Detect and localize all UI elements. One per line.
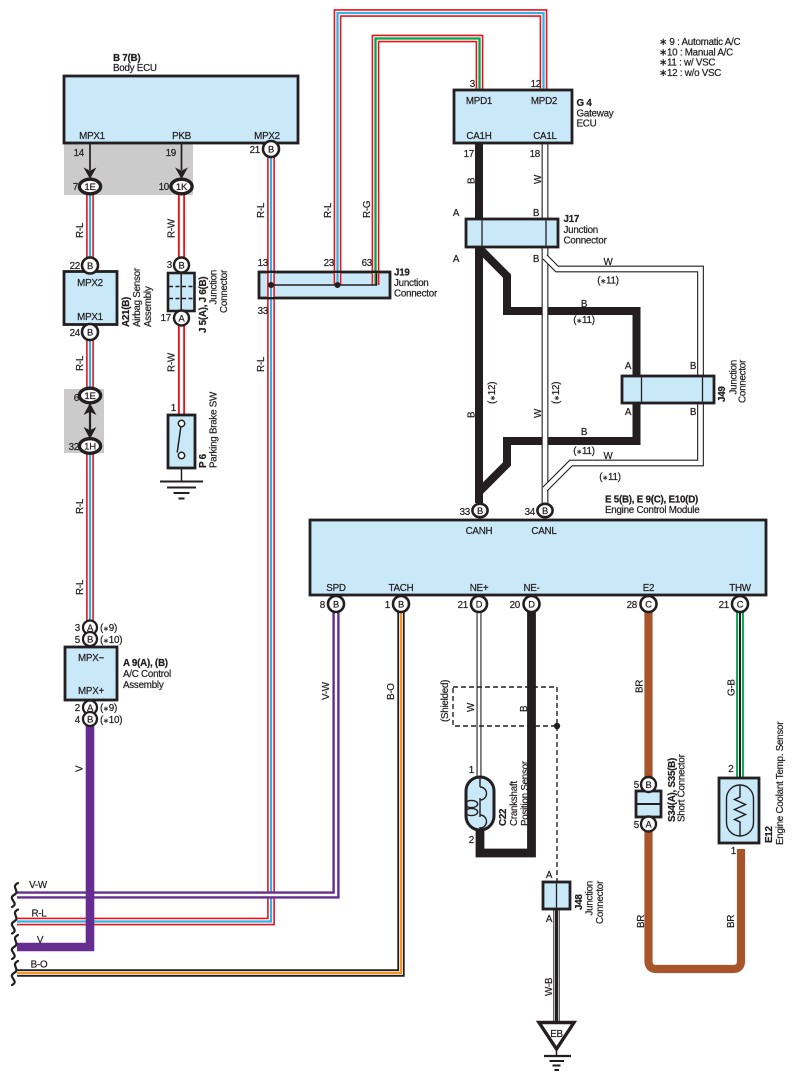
- svg-text:B: B: [87, 634, 93, 645]
- connector 1H (pin 32): [79, 439, 100, 454]
- svg-text:SPD: SPD: [326, 583, 346, 594]
- pin 5 B of S34: [641, 777, 656, 792]
- wire BR from ECM E2 to short connector S34 pin 5: [644, 612, 652, 778]
- wire W-B from J48 to EB ground: [553, 909, 559, 1023]
- svg-text:22: 22: [70, 261, 80, 272]
- svg-text:Connector: Connector: [219, 269, 230, 313]
- C22 pickup coil symbol: [465, 778, 486, 830]
- svg-text:CANH: CANH: [466, 526, 493, 537]
- connector 1E (pin 7): [79, 179, 100, 194]
- svg-text:Junction: Junction: [564, 225, 599, 236]
- svg-text:J19: J19: [394, 268, 410, 279]
- svg-text:5: 5: [634, 820, 640, 831]
- svg-text:B: B: [87, 714, 93, 725]
- pin 21 C THW of ECM: [732, 596, 748, 612]
- svg-text:A: A: [546, 914, 553, 925]
- wire B-O from ECM TACH pin 1 to left edge: [17, 612, 401, 973]
- svg-text:1: 1: [469, 765, 474, 776]
- svg-text:3: 3: [470, 79, 476, 90]
- svg-text:V: V: [75, 765, 86, 772]
- wire B (*11) branch from J17 to J49 pin A: [479, 248, 637, 377]
- Engine Control Module box: [310, 520, 766, 595]
- svg-text:MPD2: MPD2: [531, 96, 557, 107]
- svg-text:R-W: R-W: [167, 218, 178, 238]
- svg-text:Airbag Sensor: Airbag Sensor: [132, 267, 143, 327]
- E12 thermistor element: [735, 785, 746, 836]
- parking brake switch lever: [177, 427, 181, 453]
- svg-text:W: W: [604, 451, 614, 462]
- pin 17 A of J6: [174, 311, 189, 326]
- S34(A)/S35(B) short connector box: [636, 791, 661, 817]
- squiggle at V-W wire: [12, 883, 18, 907]
- svg-text:∗12 : w/o VSC: ∗12 : w/o VSC: [659, 68, 721, 79]
- wire W from ECM NE+ to C22 pin 1: [477, 612, 482, 778]
- svg-text:B: B: [533, 254, 540, 265]
- svg-text:B: B: [87, 327, 93, 337]
- svg-text:MPD1: MPD1: [466, 96, 492, 107]
- svg-text:Connector: Connector: [394, 289, 438, 300]
- svg-text:19: 19: [166, 148, 176, 159]
- svg-text:A: A: [453, 208, 460, 219]
- ground symbol below P 6: [160, 468, 203, 499]
- svg-text:EB: EB: [550, 1029, 563, 1040]
- svg-text:J17: J17: [564, 214, 580, 225]
- svg-text:Assembly: Assembly: [123, 680, 164, 691]
- svg-text:32: 32: [69, 442, 79, 453]
- svg-text:G 4: G 4: [577, 98, 593, 109]
- pin 28 C E2 of ECM: [641, 596, 657, 612]
- svg-text:1: 1: [385, 600, 390, 611]
- svg-text:C: C: [645, 599, 652, 609]
- svg-text:J 5(A), J 6(B): J 5(A), J 6(B): [198, 277, 209, 333]
- svg-text:B: B: [533, 208, 540, 219]
- wire V from A/C assembly pin 4 to left edge: [17, 726, 90, 947]
- wire B from Gateway CA1H pin 17 to ECM CANH pin 33: [475, 143, 483, 503]
- svg-text:A: A: [625, 361, 632, 372]
- svg-text:21: 21: [719, 600, 729, 611]
- wire R-L stub J19 pin 23: [334, 273, 342, 285]
- svg-text:V: V: [37, 935, 44, 946]
- pin 8 B SPD of ECM: [328, 596, 344, 612]
- svg-text:B: B: [690, 407, 697, 418]
- pin 3 A of A/C assembly: [83, 621, 97, 635]
- svg-text:Position Sensor: Position Sensor: [520, 760, 531, 826]
- svg-text:B: B: [690, 361, 697, 372]
- J48 internal vertical line: [556, 884, 558, 908]
- wire W (*11) branch from J17 to J49 pin B: [545, 257, 701, 377]
- svg-text:(Shielded): (Shielded): [440, 680, 451, 722]
- svg-text:B: B: [333, 599, 339, 609]
- svg-text:E2: E2: [643, 583, 654, 594]
- svg-text:Engine Control Module: Engine Control Module: [605, 505, 700, 516]
- svg-text:C22: C22: [498, 808, 509, 826]
- svg-text:MPX1: MPX1: [77, 312, 103, 323]
- pin 4 B of A/C assembly: [83, 712, 97, 726]
- svg-text:THW: THW: [729, 583, 752, 594]
- svg-text:V-W: V-W: [29, 880, 48, 891]
- svg-text:G-B: G-B: [727, 679, 738, 696]
- svg-text:17: 17: [464, 149, 474, 160]
- svg-text:V-W: V-W: [321, 681, 332, 700]
- svg-text:A: A: [646, 819, 653, 829]
- svg-text:21: 21: [458, 600, 468, 611]
- svg-text:Body ECU: Body ECU: [113, 63, 157, 74]
- wire V-W from ECM SPD pin 8 to left edge: [17, 612, 336, 895]
- svg-text:6: 6: [74, 393, 80, 404]
- A21(B) Airbag Sensor Assembly box: [64, 272, 117, 325]
- svg-text:(∗12): (∗12): [487, 382, 498, 404]
- wire G-B from ECM THW to E12 pin 2: [736, 612, 744, 779]
- svg-text:P 6: P 6: [198, 453, 209, 468]
- svg-text:B: B: [519, 705, 530, 712]
- E12 engine coolant temp sensor box: [719, 778, 759, 843]
- svg-text:R-W: R-W: [167, 352, 178, 372]
- svg-text:18: 18: [530, 149, 541, 160]
- svg-text:R-L: R-L: [323, 202, 334, 218]
- svg-text:A21(B): A21(B): [121, 297, 132, 327]
- svg-text:B: B: [646, 780, 652, 790]
- squiggle at B-O wire: [12, 961, 18, 985]
- connector 1E (pin 6): [79, 388, 100, 403]
- svg-text:W: W: [533, 174, 544, 184]
- svg-text:3: 3: [167, 260, 173, 271]
- pin 20 D NE- of ECM: [524, 596, 540, 612]
- svg-text:2: 2: [728, 764, 733, 775]
- svg-text:28: 28: [627, 600, 638, 611]
- svg-text:A: A: [546, 870, 553, 881]
- wire R-G from J19 pin 63 over the top to Gateway MPD1 pin 3: [376, 39, 480, 273]
- svg-text:BR: BR: [635, 680, 646, 693]
- wire R-G stub J19 pin 63: [372, 273, 380, 285]
- J19 junction connector box: [259, 272, 390, 298]
- svg-text:(∗10): (∗10): [100, 715, 122, 726]
- svg-text:B: B: [477, 506, 483, 516]
- svg-text:Junction: Junction: [394, 278, 429, 289]
- wire R-L from connector 1E to A21 pin 22: [86, 194, 94, 258]
- wire R-L from Body ECU pin 21 through J19 (13/33) to left edge: [17, 157, 271, 922]
- Body ECU B 7(B) box: [64, 76, 298, 143]
- svg-text:R-L: R-L: [75, 498, 86, 514]
- shield (dashed) around C22 wires: [453, 687, 557, 882]
- svg-text:B: B: [467, 177, 478, 184]
- svg-text:A: A: [179, 313, 186, 323]
- svg-text:Connector: Connector: [564, 236, 608, 247]
- svg-text:10: 10: [159, 182, 170, 193]
- svg-text:Junction: Junction: [209, 270, 220, 305]
- svg-text:MPX1: MPX1: [79, 131, 105, 142]
- svg-text:NE+: NE+: [470, 583, 489, 594]
- J5/J6 internal dashed lines: [169, 287, 194, 299]
- svg-text:(∗9): (∗9): [100, 623, 117, 634]
- EB ground symbol: [544, 1049, 571, 1070]
- pin 3 B of J5: [174, 258, 189, 273]
- svg-text:J49: J49: [717, 386, 728, 402]
- svg-text:23: 23: [324, 258, 335, 269]
- A 9(A),(B) A/C control assembly box: [65, 647, 117, 700]
- svg-text:BR: BR: [726, 915, 737, 928]
- svg-text:2: 2: [75, 703, 80, 714]
- svg-text:17: 17: [161, 313, 171, 324]
- J19 junction dot pin13: [268, 282, 274, 288]
- svg-text:E 5(B), E 9(C), E10(D): E 5(B), E 9(C), E10(D): [605, 495, 698, 506]
- pin 24 B of A21: [82, 324, 98, 340]
- svg-text:Assembly: Assembly: [143, 286, 154, 327]
- svg-text:E12: E12: [764, 826, 775, 843]
- svg-text:B-O: B-O: [31, 960, 48, 971]
- wire W from Gateway CA1L pin 18 to ECM CANL pin 34: [542, 143, 549, 503]
- J49 internal cell lines: [642, 378, 703, 402]
- svg-text:Short Connector: Short Connector: [677, 753, 688, 822]
- svg-text:2: 2: [469, 835, 474, 846]
- svg-text:(∗11): (∗11): [573, 315, 594, 326]
- svg-text:20: 20: [510, 600, 521, 611]
- J 5(A), J 6(B) junction connector box: [168, 273, 195, 311]
- svg-text:MPX2: MPX2: [77, 278, 103, 289]
- wire B (*11) branch from J49 pin A back to CANH: [480, 402, 637, 491]
- svg-text:TACH: TACH: [389, 583, 414, 594]
- svg-text:B: B: [179, 260, 185, 270]
- svg-text:PKB: PKB: [172, 131, 192, 142]
- pin 34 B CANL of ECM: [537, 504, 552, 517]
- svg-text:7: 7: [73, 182, 78, 193]
- svg-text:(∗10): (∗10): [100, 635, 122, 646]
- svg-text:8: 8: [320, 600, 326, 611]
- svg-text:B: B: [268, 144, 274, 154]
- svg-text:R-L: R-L: [75, 579, 86, 595]
- svg-text:(∗11): (∗11): [573, 446, 594, 457]
- svg-text:24: 24: [70, 328, 81, 339]
- svg-text:A: A: [453, 254, 460, 265]
- svg-text:(∗11): (∗11): [597, 276, 618, 287]
- svg-text:1E: 1E: [84, 182, 95, 193]
- J17 junction connector box: [466, 219, 558, 247]
- EB ground triangle: [539, 1023, 574, 1050]
- svg-text:Connector: Connector: [595, 880, 606, 924]
- gray shaded connector region under Body ECU: [64, 143, 193, 195]
- S34/S35 internal divider: [636, 803, 661, 805]
- J19 internal bus line: [271, 273, 377, 285]
- wire R-W from J5 pin 17 to Parking Brake SW pin 1: [178, 325, 185, 415]
- svg-text:A 9(A), (B): A 9(A), (B): [123, 658, 168, 669]
- pin 21 B of Body ECU MPX2: [263, 141, 279, 157]
- svg-text:(∗9): (∗9): [100, 703, 117, 714]
- svg-text:14: 14: [74, 148, 85, 159]
- svg-text:Junction: Junction: [585, 881, 596, 916]
- wire R-L crossing J19 (pins 13-33): [267, 273, 275, 297]
- svg-text:12: 12: [531, 79, 541, 90]
- svg-text:B-O: B-O: [386, 683, 397, 700]
- wire B from ECM NE- to C22 pin 2: [480, 612, 532, 853]
- pin 5 A of S35: [641, 817, 656, 832]
- svg-text:NE-: NE-: [523, 583, 539, 594]
- svg-text:B: B: [467, 411, 478, 418]
- Gateway ECU G 4 box: [454, 90, 572, 143]
- svg-text:34: 34: [525, 507, 536, 518]
- Body ECU MPX1 pin 14 arrow: [84, 143, 97, 179]
- svg-text:Engine Coolant Temp. Sensor: Engine Coolant Temp. Sensor: [775, 721, 786, 845]
- wire R-L from J19 pin 23 over the top to Gateway MPD2 pin 12: [338, 13, 544, 272]
- pin 33 B CANH of ECM: [472, 504, 487, 517]
- svg-text:C: C: [737, 599, 744, 609]
- svg-text:W: W: [466, 702, 477, 712]
- svg-text:Crankshaft: Crankshaft: [509, 781, 520, 826]
- wire R-W from connector 1K to J5 pin 3: [178, 194, 185, 258]
- connector 1K (pin 10): [171, 179, 192, 194]
- svg-text:5: 5: [75, 635, 81, 646]
- svg-text:BR: BR: [636, 915, 647, 928]
- svg-text:B: B: [87, 261, 93, 271]
- svg-text:A: A: [625, 407, 632, 418]
- svg-text:R-L: R-L: [256, 356, 267, 372]
- wire W (*11) branch from J49 pin B back to CANL: [545, 402, 701, 489]
- pin 5 B of A/C assembly: [83, 632, 97, 646]
- C22 crankshaft position sensor body: [466, 777, 494, 830]
- svg-text:1: 1: [171, 403, 176, 414]
- P 6 Parking Brake SW box: [168, 415, 195, 468]
- svg-text:1K: 1K: [176, 182, 188, 193]
- double arrow between 1E and 1H: [84, 403, 97, 439]
- svg-text:R-L: R-L: [75, 222, 86, 238]
- svg-text:4: 4: [75, 715, 81, 726]
- wire R-L from A21 pin 24 to connector 1E(6): [86, 339, 94, 389]
- svg-text:W: W: [604, 257, 614, 268]
- wire R-L from connector 1H to A/C assembly pin 3: [86, 453, 94, 621]
- svg-text:21: 21: [250, 145, 260, 156]
- svg-text:1E: 1E: [84, 391, 95, 402]
- shield drain junction dot: [554, 723, 560, 729]
- svg-text:MPX2: MPX2: [254, 131, 280, 142]
- svg-text:D: D: [528, 599, 535, 609]
- J49 junction connector box: [622, 376, 714, 403]
- svg-text:1H: 1H: [84, 441, 96, 452]
- squiggle at V wire: [12, 935, 18, 959]
- svg-text:Connector: Connector: [738, 359, 749, 403]
- svg-text:B: B: [581, 427, 588, 438]
- J19 junction dot pin23: [335, 282, 341, 288]
- svg-text:B: B: [542, 506, 548, 516]
- J5/J6 internal vertical line: [180, 274, 182, 310]
- svg-text:ECU: ECU: [577, 119, 597, 130]
- svg-text:J48: J48: [574, 894, 585, 910]
- pin 2 A of A/C assembly: [83, 701, 97, 715]
- pin 21 D NE+ of ECM: [471, 596, 487, 612]
- pin 1 B TACH of ECM: [393, 596, 409, 612]
- svg-text:R-L: R-L: [256, 202, 267, 218]
- svg-text:R-L: R-L: [75, 355, 86, 371]
- svg-text:5: 5: [634, 780, 640, 791]
- parking brake switch contacts: [178, 420, 184, 458]
- gray shaded region around 1E/1H inline connectors: [64, 389, 104, 453]
- svg-text:33: 33: [460, 507, 471, 518]
- svg-text:MPX−: MPX−: [78, 653, 104, 664]
- svg-text:R-L: R-L: [31, 909, 47, 920]
- E12 thermistor capsule: [727, 785, 754, 836]
- svg-text:W-B: W-B: [544, 977, 555, 996]
- svg-text:B: B: [581, 299, 588, 310]
- pin 22 B of A21: [82, 258, 98, 274]
- svg-text:13: 13: [258, 258, 269, 269]
- svg-text:CA1H: CA1H: [466, 131, 491, 142]
- svg-text:Parking Brake SW: Parking Brake SW: [209, 391, 220, 468]
- squiggle at R-L wire: [12, 910, 18, 934]
- svg-text:A/C Control: A/C Control: [123, 669, 171, 680]
- svg-text:1: 1: [731, 846, 736, 857]
- svg-text:63: 63: [362, 258, 373, 269]
- wire BR from S34 pin 5 to E12 pin 1: [649, 831, 742, 969]
- svg-text:CA1L: CA1L: [533, 131, 557, 142]
- svg-text:∗ 9 : Automatic A/C: ∗ 9 : Automatic A/C: [659, 37, 741, 48]
- Body ECU PKB pin 19 arrow: [175, 143, 188, 179]
- svg-text:D: D: [476, 599, 483, 609]
- svg-text:B: B: [398, 599, 404, 609]
- svg-text:W: W: [533, 408, 544, 418]
- svg-text:R-G: R-G: [362, 201, 373, 218]
- J48 junction connector box: [543, 882, 570, 909]
- svg-text:33: 33: [258, 306, 269, 317]
- svg-text:3: 3: [75, 623, 81, 634]
- svg-text:(∗12): (∗12): [551, 382, 562, 404]
- svg-text:MPX+: MPX+: [78, 686, 104, 697]
- svg-text:(∗11): (∗11): [599, 472, 620, 483]
- svg-text:CANL: CANL: [531, 526, 557, 537]
- J17 internal cell lines: [482, 221, 546, 246]
